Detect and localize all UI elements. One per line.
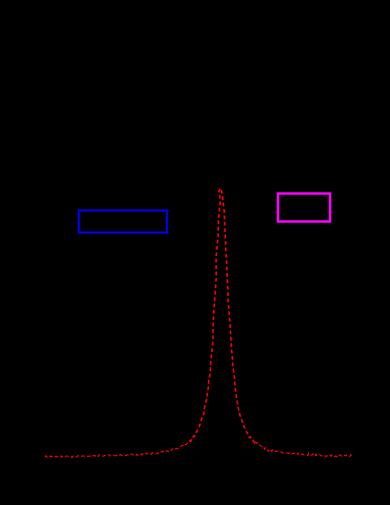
red dashed data curve: resonance peak xyxy=(190,188,256,443)
magenta legend box xyxy=(278,194,330,222)
red dashed data curve: right baseline xyxy=(255,442,353,456)
blue legend box xyxy=(79,211,167,233)
red dashed data curve: left baseline xyxy=(45,440,191,457)
